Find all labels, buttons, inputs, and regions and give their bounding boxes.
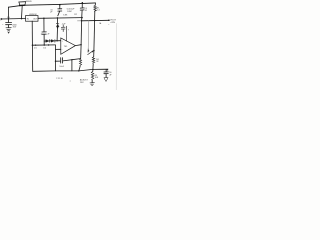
svg-text:1: 1 (41, 34, 42, 36)
svg-text:2N3055: 2N3055 (26, 1, 32, 3)
svg-text:+28V: +28V (110, 22, 116, 24)
svg-text:5 TO 1K: 5 TO 1K (56, 78, 63, 80)
svg-text:10uF: 10uF (59, 66, 64, 68)
svg-text:LM309K: LM309K (29, 14, 37, 16)
svg-text:6.8K: 6.8K (63, 15, 68, 17)
svg-text:DISC: DISC (67, 11, 72, 13)
svg-text:o: o (70, 80, 71, 82)
svg-text:.01: .01 (84, 10, 87, 12)
svg-text:7: 7 (68, 30, 69, 32)
